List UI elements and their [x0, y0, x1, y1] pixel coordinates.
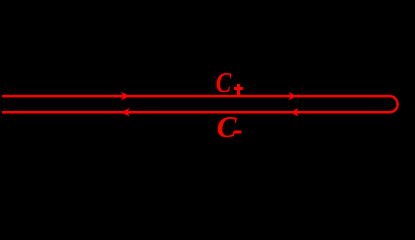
arrow right on C+ branch (left) — [121, 92, 130, 101]
label C+ — [216, 67, 243, 99]
svg-text:C: C — [216, 67, 232, 99]
arrow left on C- branch (left) — [121, 108, 130, 117]
arrow right on C+ branch (right) — [289, 92, 297, 101]
svg-text:C: C — [217, 109, 238, 144]
contour C (wire): upper branch, U-turn, lower branch — [2, 96, 398, 112]
arrow left on C- branch (right) — [290, 108, 298, 117]
label C- — [217, 109, 242, 144]
